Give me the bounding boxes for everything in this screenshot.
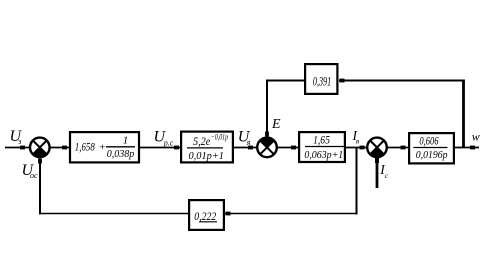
wire Ic disturbance input [375,158,379,188]
wire input [5,146,30,150]
svg-text:0,391: 0,391 [313,74,331,89]
node E label [271,117,281,132]
summing junction S1 [30,138,50,158]
svg-text:з: з [17,136,22,146]
svg-text:1: 1 [123,134,129,146]
wire W2 to S2 [234,146,257,150]
node Uз label [10,128,23,146]
svg-text:0,222: 0,222 [194,211,216,223]
block W2 thyristor converter 5,2e^-0,01p/(0,01p+1) [181,132,233,163]
svg-text:я: я [355,136,360,145]
wire top feedback right segment [339,79,465,83]
block W6 speed feedback 0,222 [189,200,224,230]
svg-text:5,2e: 5,2e [193,136,210,148]
wire bottom feedback right segment [225,212,358,216]
block W4 mechanical 0,606/0,0196p [409,133,454,163]
wire top feedback left segment [266,80,304,82]
svg-text:0,606: 0,606 [419,135,438,147]
svg-text:−0,01p: −0,01p [211,133,228,142]
block W3 armature circuit 1,65/(0,063p+1) [299,132,345,162]
svg-text:0,063p+1: 0,063p+1 [304,150,343,161]
node Uос label [22,162,39,180]
svg-text:р.с: р.с [163,139,174,148]
wire S3 to W4 [387,146,408,150]
svg-text:0,0196p: 0,0196p [416,150,448,161]
svg-text:1,658: 1,658 [75,141,95,153]
svg-text:0,01p+1: 0,01p+1 [189,151,225,162]
svg-text:w: w [472,130,480,144]
svg-text:1,65: 1,65 [313,134,330,146]
node Iя label [352,128,360,145]
svg-text:0,038p: 0,038p [107,149,135,160]
wire output w [455,146,479,150]
node Ic label [379,162,388,180]
wire S1 to W1 [50,146,69,150]
svg-text:я: я [246,138,251,147]
wire bottom feedback left segment [39,213,188,215]
wire W3 to S3 with branch node [346,146,367,150]
wire W1 to W2 [140,146,180,150]
node w label [472,130,480,144]
wire bottom feedback up into S1 [38,159,42,215]
svg-text:ос: ос [30,171,38,180]
block W1 speed regulator 1,658 + 1/0,038p [70,132,139,162]
node Uя label [238,129,251,147]
wire feedback tap up from output [462,80,465,148]
summing junction S2 [257,138,277,158]
block W5 emf feedback 0,391 [305,64,337,94]
wire top feedback down into S2 [265,80,269,137]
summing junction S3 [367,138,387,158]
wire branch down from Iя node [356,148,358,215]
wire S2 to W3 [277,146,298,150]
svg-text:E: E [271,117,281,132]
node Uр.с label [154,128,174,147]
svg-text:+: + [99,141,106,153]
